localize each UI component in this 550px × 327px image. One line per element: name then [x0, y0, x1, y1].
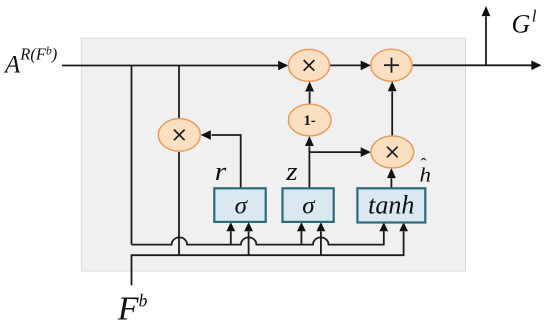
svg-text:ˆ: ˆ	[421, 155, 427, 174]
wire: z gate output up to 1- circle	[308, 146, 310, 188]
left multiply circle	[158, 119, 200, 152]
bottom multiply circle	[371, 136, 414, 168]
svg-text:σ: σ	[302, 193, 316, 220]
wire: main input line A to multiply circle	[62, 65, 279, 67]
svg-text:Fb: Fb	[117, 291, 148, 327]
wire: left multiply output down to lower bus	[178, 150, 180, 255]
svg-text:tanh: tanh	[368, 191, 414, 220]
plus circle	[371, 49, 412, 81]
wire: bottom multiply up to plus	[391, 92, 393, 137]
plus symbol	[384, 58, 399, 73]
left multiply symbol	[174, 130, 185, 141]
arrowhead: upper bus end into tanh	[379, 222, 388, 231]
tanh gate box	[357, 188, 425, 222]
bottom multiply symbol	[387, 147, 398, 158]
wire: lower bus to sigma1 right arrow	[248, 231, 250, 255]
svg-text:1-: 1-	[304, 113, 316, 129]
wire: lower input bus from F	[132, 231, 404, 285]
wire: r gate output to left multiply	[212, 135, 241, 188]
wire: drop from main line into left multiply	[178, 66, 180, 121]
wire: top multiply to plus	[330, 64, 362, 66]
wire: output branch up to G	[485, 16, 487, 65]
wire: upper state bus with hops	[132, 231, 384, 244]
wire: z branch to bottom multiply	[309, 151, 361, 153]
top multiply symbol	[304, 60, 315, 71]
wire: upper bus to sigma1 left arrow	[230, 231, 232, 244]
sigma gate box z	[283, 188, 334, 222]
wire: tanh output up to bottom multiply	[390, 178, 392, 188]
svg-text:z: z	[285, 157, 297, 186]
wire: lower bus to sigma2 right arrow	[320, 231, 322, 255]
sigma gate box r	[214, 188, 265, 222]
wire: 1- circle up to top multiply	[309, 92, 311, 105]
GRU cell background box	[81, 38, 465, 271]
top multiply circle	[288, 49, 329, 81]
wire: upper bus to sigma2 left arrow	[300, 231, 302, 244]
arrowhead into top multiply	[278, 61, 288, 71]
svg-text:r: r	[215, 157, 227, 186]
svg-text:AR(Fb): AR(Fb)	[3, 45, 57, 79]
1- circle	[288, 104, 331, 136]
svg-text:Gl: Gl	[512, 6, 537, 38]
svg-text:σ: σ	[235, 193, 249, 220]
wire: output line from plus to right edge	[412, 64, 532, 66]
wire: drop from main line to upper bus	[131, 66, 133, 245]
arrowhead: lower bus end into tanh	[399, 222, 408, 231]
